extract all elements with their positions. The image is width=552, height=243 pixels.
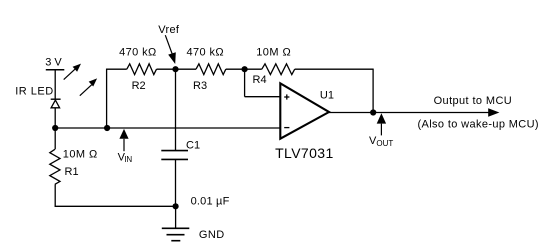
svg-text:0.01 µF: 0.01 µF — [191, 196, 230, 208]
label R3 — [193, 80, 207, 92]
node Vref junction — [172, 66, 178, 72]
op-amp U1 — [280, 83, 329, 138]
output arrowhead to MCU — [488, 108, 499, 117]
VIN arrow — [119, 129, 128, 151]
wire R4 feedback top — [295, 68, 373, 70]
label VOUT — [369, 135, 393, 148]
wire R3 to R4 node — [226, 68, 245, 70]
junction VIN/R2 branch — [104, 125, 110, 131]
label TLV7031 — [275, 145, 334, 161]
wire op-amp output — [329, 112, 489, 114]
wire R1 to bottom rail — [54, 184, 56, 206]
svg-text:470 kΩ: 470 kΩ — [119, 47, 157, 59]
wire LED to VIN node — [54, 108, 56, 150]
label VIN — [118, 151, 133, 164]
svg-text:10M Ω: 10M Ω — [63, 148, 98, 160]
wire feedback vertical — [372, 69, 374, 113]
svg-text:R3: R3 — [193, 80, 207, 92]
junction LED/R1/VIN — [52, 125, 58, 131]
svg-text:OUT: OUT — [376, 139, 393, 148]
wire R2 to Vref node — [157, 68, 176, 70]
label IR LED — [15, 86, 53, 98]
label U1 — [320, 89, 334, 101]
label R4 — [253, 74, 267, 86]
junction output node — [370, 109, 376, 115]
VOUT arrow — [377, 113, 386, 135]
wire Vref to R3 — [176, 68, 197, 70]
svg-text:TLV7031: TLV7031 — [275, 145, 334, 161]
resistor R4 — [262, 64, 295, 75]
label 10M Ohm R4 value — [256, 46, 291, 58]
svg-text:R1: R1 — [65, 166, 79, 178]
svg-text:Output to MCU: Output to MCU — [434, 95, 513, 107]
svg-text:Vref: Vref — [158, 24, 180, 36]
wire noninverting to op-amp — [245, 96, 281, 98]
svg-text:U1: U1 — [320, 89, 334, 101]
label Output to MCU — [434, 95, 513, 107]
ground symbol — [162, 228, 190, 240]
wire node to R4 — [245, 68, 262, 70]
wire R2 branch vertical — [106, 69, 108, 128]
label 470 kOhm R2 value — [119, 47, 157, 59]
wire bottom rail — [55, 205, 176, 207]
label C1 — [186, 140, 200, 152]
resistor R3 — [196, 64, 226, 75]
resistor R1 — [50, 149, 60, 184]
svg-text:GND: GND — [199, 229, 225, 241]
label R2 — [132, 80, 146, 92]
label 10M Ohm R1 value — [63, 148, 98, 160]
node R3/R4 junction — [242, 66, 248, 72]
label 0.01 uF — [191, 196, 230, 208]
wire VIN row — [55, 127, 280, 129]
label Also to wake-up MCU — [418, 119, 539, 131]
svg-text:3 V: 3 V — [45, 56, 62, 68]
svg-text:470 kΩ: 470 kΩ — [187, 47, 225, 59]
svg-text:(Also to wake-up MCU): (Also to wake-up MCU) — [418, 119, 539, 131]
junction ground node — [173, 203, 179, 209]
svg-text:IN: IN — [124, 155, 132, 164]
Vref pointer arrow — [165, 35, 176, 64]
light arrow 2 — [80, 78, 97, 95]
label 470 kOhm R3 value — [187, 47, 225, 59]
svg-text:IR LED: IR LED — [15, 86, 53, 98]
IR LED D1 — [51, 99, 61, 108]
svg-text:10M Ω: 10M Ω — [256, 46, 291, 58]
label Vref — [158, 24, 180, 36]
wire ground stub — [175, 206, 177, 228]
label R1 — [65, 166, 79, 178]
wire C1 to ground node — [175, 159, 177, 206]
wire supply to LED — [54, 70, 56, 100]
label GND — [199, 229, 225, 241]
svg-text:R2: R2 — [132, 80, 146, 92]
wire noninverting branch vertical — [244, 69, 246, 97]
wire Vref to C1 — [175, 69, 177, 150]
resistor R2 — [127, 64, 157, 75]
wire top row to R2 — [107, 68, 127, 70]
light arrow 1 — [64, 64, 81, 80]
label 3 V — [45, 56, 62, 68]
svg-text:C1: C1 — [186, 140, 200, 152]
capacitor C1 — [161, 151, 188, 160]
supply rail 3V bar — [46, 69, 65, 71]
svg-text:R4: R4 — [253, 74, 267, 86]
